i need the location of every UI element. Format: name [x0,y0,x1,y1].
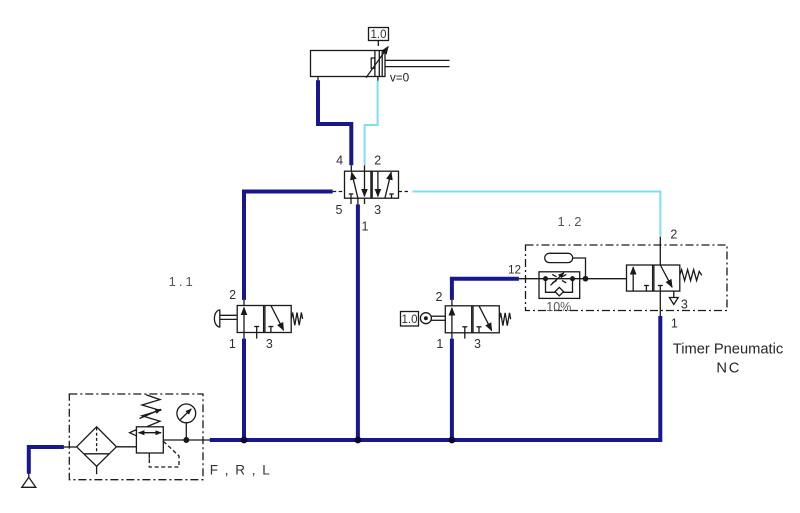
wire 5/2 port 4 to cylinder left port [318,80,351,165]
check valve ball (diamond) [555,287,564,295]
timer valve left box flow 1 to 2 [632,267,634,291]
throttle to timer valve line [580,278,627,280]
5/2 right box flow 1 to 2 [385,172,391,198]
valve 1.0 label box [401,312,419,327]
wire cyan 5/2 right pilot to timer port 2 [413,192,661,238]
5/2 valve body [345,171,399,198]
cylinder 1.0 body [311,51,386,77]
5/2 left box blocked port 5 [350,194,352,198]
timer valve right box blocked port 1 [659,286,661,292]
cylinder designation arrow [366,47,388,78]
5/2 left box flow 1 to 4 [352,172,358,198]
filter with water separator [77,427,117,467]
svg-text:5: 5 [336,203,343,217]
svg-text:1: 1 [362,219,369,233]
wire valve 1.1 port 2 to 5/2 left pilot [244,192,333,300]
throttle check valve outer box [539,272,580,299]
junction node gauge to output line [184,438,189,443]
pressure regulator [136,427,163,453]
valve 1.1 port stubs [243,300,245,306]
svg-text:1: 1 [436,337,443,351]
junction node at valve 1.0 supply [449,437,456,444]
valve 1.0 right box flow 2 to 3 [479,306,492,331]
svg-text:2: 2 [374,154,381,168]
timer valve right box flow 2 to 3 [660,265,672,287]
svg-text:NC: NC [716,360,741,376]
valve 1.1 body (3/2 push button) [237,306,291,333]
5/2 right box flow 4 to 5 [377,171,379,196]
FRL service unit enclosure (dash-dot box) [69,394,203,480]
valve 1.0 right box blocked port 1 [478,327,480,333]
svg-text:1.0: 1.0 [402,314,418,326]
junction node at 5/2 valve supply [355,437,362,444]
svg-text:v=0: v=0 [390,71,410,85]
5/2 port stubs [350,165,352,171]
svg-text:Timer Pneumatic: Timer Pneumatic [673,342,783,358]
wire FRL output supply bus [210,316,661,440]
wire cyan cylinder piston side to 5/2 port 2 [365,80,378,165]
filter to regulator line [116,446,136,448]
valve 1.0 port stubs [451,300,453,306]
FRL output line [163,439,210,441]
svg-text:3: 3 [266,337,273,351]
valve 1.1 return spring [291,313,302,326]
valve 1.0 left box blocked port 3 [464,327,466,333]
valve 1.1 push button actuator [220,314,238,316]
svg-text:2: 2 [436,290,443,304]
valve 1.0 left box flow 1 to 2 [451,308,453,333]
timer 3/2 valve body [627,265,680,291]
cylinder label box 1.0 [369,28,389,41]
svg-text:3: 3 [681,298,688,312]
regulator spring [142,395,160,427]
timer valve port 3 stub and exhaust [673,291,675,297]
svg-text:4: 4 [336,154,343,168]
timer valve left box blocked port 3 [645,286,647,292]
svg-text:1.0: 1.0 [371,29,387,41]
timer port 12 line [519,278,539,280]
valve 1.0 body (3/2 roller) [445,306,499,333]
valve 1.1 left box blocked port 3 [256,327,258,333]
wire bus to 5/2 valve port 1 [356,204,360,440]
throttle main line [539,278,580,280]
svg-text:1: 1 [671,317,678,331]
svg-text:1.1: 1.1 [169,274,196,289]
valve 1.1 left box flow 1 to 2 [243,308,245,333]
svg-text:3: 3 [374,203,381,217]
regulator adjustment arrow [140,409,162,418]
FRL input line [64,446,77,448]
wire valve 1.0 port 2 to timer port 12 [452,279,519,300]
svg-text:2: 2 [670,228,677,242]
svg-text:12: 12 [508,263,521,277]
compressed air source [28,474,30,478]
valve 1.1 right box flow 2 to 3 [271,306,284,331]
svg-text:1.2: 1.2 [557,214,584,229]
cylinder piston rod [385,59,450,61]
svg-text:3: 3 [474,337,481,351]
valve 1.0 return spring [499,313,510,326]
valve 1.1 right box blocked port 1 [270,327,272,333]
pressure gauge [177,404,196,423]
5/2 left box flow 2 to 3 [364,171,366,196]
valve 1.0 roller actuator [431,315,445,317]
check valve bypass loop [546,279,573,293]
throttle restriction marks [552,274,556,276]
timer valve return spring [680,270,702,281]
air reservoir [545,253,573,262]
5/2 right box blocked port 3 [391,194,393,198]
junction nodes on throttle line [544,277,548,281]
reservoir connection line [573,258,586,279]
svg-text:2: 2 [229,288,236,302]
wire bus to valve 1.1 port 1 [242,339,246,440]
timer valve port 2 stub [659,237,661,265]
cylinder port stubs [317,77,319,81]
5/2 right pilot dashed line [399,191,411,193]
cylinder piston [374,51,376,77]
junction node at valve 1.1 supply [241,437,248,444]
timer valve port 1 stub [659,291,661,316]
throttle adjustment arrow [551,273,565,286]
regulator pilot feedback (dashed) [148,453,150,459]
wire supply from compressed air source to FRL [29,447,64,474]
wire bus to valve 1.0 port 1 [450,339,454,440]
svg-text:10%: 10% [546,300,571,314]
5/2 left pilot dashed line [333,191,345,193]
svg-text:1: 1 [229,337,236,351]
svg-text:F , R , L: F , R , L [210,462,272,477]
timer 1.2 enclosure (dash-dot box) [526,245,728,311]
